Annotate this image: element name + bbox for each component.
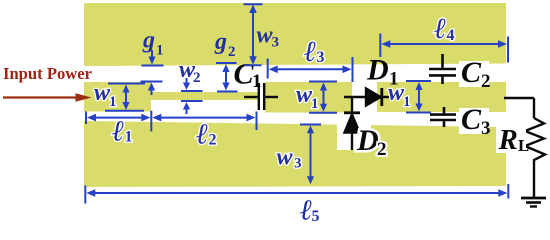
resistor RL zigzag [525, 118, 545, 197]
RL label [496, 127, 526, 153]
C2 label [459, 61, 489, 87]
w1 dimension at output [406, 80, 431, 82]
svg-text:5: 5 [312, 208, 320, 224]
w1 input dimension [108, 83, 145, 85]
output microstrip line l4 [377, 82, 506, 112]
svg-text:1: 1 [109, 94, 117, 110]
label l2 [196, 119, 217, 151]
D2 notch [337, 121, 371, 150]
svg-text:1: 1 [311, 96, 319, 112]
g1 dimension [142, 65, 164, 67]
svg-text:ℓ: ℓ [196, 119, 208, 151]
svg-text:R: R [498, 124, 518, 156]
ground plane top body [84, 3, 506, 66]
wire to load [504, 98, 534, 118]
input arrow [3, 96, 77, 98]
diode D2 [344, 113, 360, 150]
label w1 at l3 [296, 82, 319, 112]
svg-text:1: 1 [252, 71, 262, 92]
svg-text:3: 3 [272, 35, 280, 51]
microstrip line l2 (width w2) [150, 92, 258, 100]
g2 dimension [216, 62, 237, 64]
svg-text:4: 4 [447, 27, 455, 44]
svg-text:D: D [356, 124, 379, 157]
wire D1 junction to D2 [351, 97, 353, 112]
label l4 [434, 13, 455, 45]
svg-text:ℓ: ℓ [112, 116, 124, 148]
ground [521, 198, 546, 207]
svg-text:1: 1 [403, 94, 411, 110]
capacitor C3 [430, 107, 456, 127]
svg-text:g: g [142, 28, 155, 54]
w2 dimension [181, 90, 203, 92]
svg-text:1: 1 [125, 129, 133, 146]
diode D1 [344, 88, 397, 106]
label w1 at output [388, 80, 411, 110]
w3 top dimension [244, 3, 263, 5]
l3 dimension [267, 59, 269, 79]
svg-text:3: 3 [317, 49, 325, 66]
svg-text:2: 2 [209, 132, 217, 149]
svg-text:2: 2 [193, 70, 201, 86]
l5 dimension [84, 186, 86, 204]
l1 l2 dimension line [85, 112, 87, 125]
capacitor C2 [429, 54, 456, 84]
svg-text:2: 2 [228, 44, 236, 60]
svg-text:2: 2 [481, 71, 491, 92]
label w3 bottom [277, 145, 302, 172]
svg-text:2: 2 [377, 139, 387, 160]
l4 dimension [379, 34, 381, 58]
label w1 input [94, 80, 117, 110]
svg-text:Input Power: Input Power [3, 64, 93, 83]
svg-text:3: 3 [294, 156, 302, 172]
microstrip line l1 (width w1) [84, 82, 151, 112]
svg-text:D: D [366, 54, 389, 87]
svg-text:C: C [461, 56, 482, 89]
svg-text:L: L [518, 136, 529, 155]
w1 dimension at l3 [309, 81, 337, 83]
svg-text:g: g [214, 29, 227, 55]
label l3 [304, 36, 325, 68]
ground plane bottom body [84, 121, 506, 187]
svg-text:3: 3 [481, 118, 491, 139]
svg-text:1: 1 [156, 43, 164, 59]
svg-text:w: w [277, 145, 294, 171]
C3 label [459, 108, 489, 134]
microstrip line l3 [265, 82, 352, 113]
svg-text:C: C [461, 103, 482, 136]
capacitor C1 [244, 83, 278, 110]
svg-text:ℓ: ℓ [434, 13, 446, 45]
w3 bottom dimension [300, 124, 321, 126]
label l1 [112, 116, 133, 148]
svg-text:ℓ: ℓ [304, 36, 316, 68]
